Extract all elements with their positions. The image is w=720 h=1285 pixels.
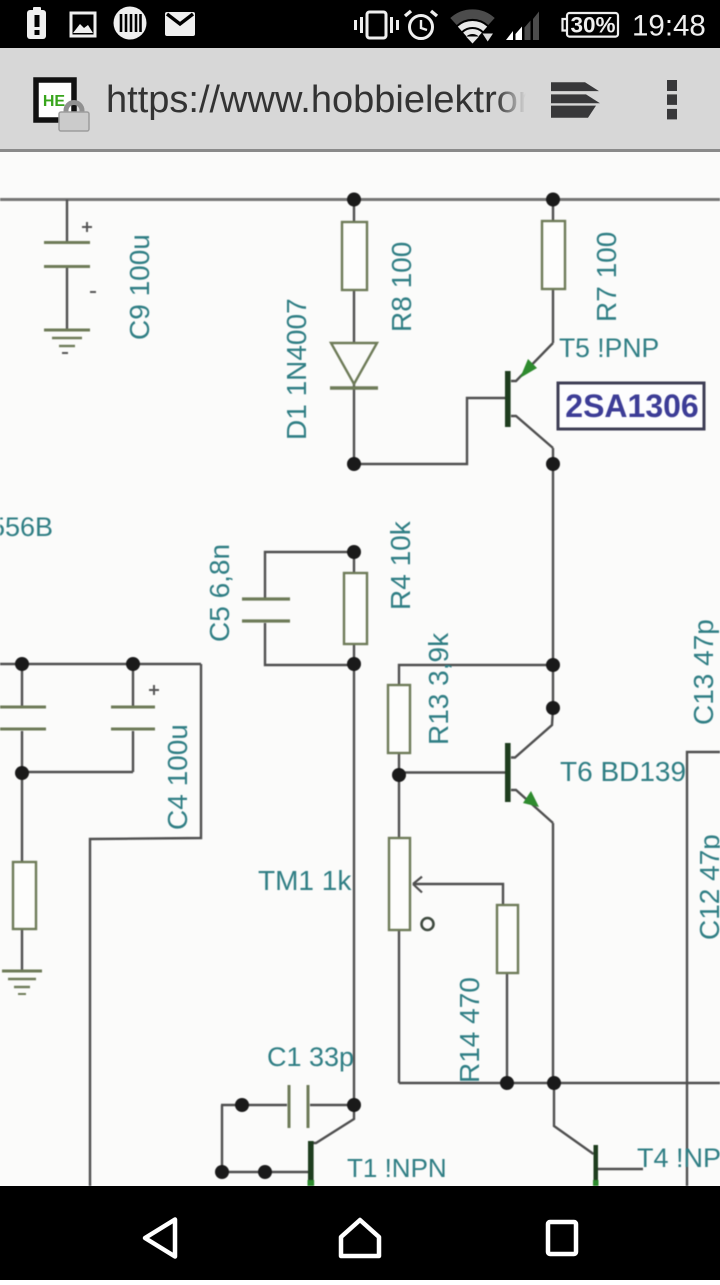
- svg-text:R7 100: R7 100: [591, 232, 622, 322]
- svg-text:R14 470: R14 470: [454, 977, 485, 1083]
- svg-text:C5 6,8n: C5 6,8n: [204, 544, 235, 642]
- svg-text:30%: 30%: [570, 13, 615, 38]
- svg-text:T4 !NP: T4 !NP: [637, 1143, 720, 1173]
- svg-text:2SA1306: 2SA1306: [565, 388, 698, 424]
- svg-text:https://www.hobbielektron: https://www.hobbielektron: [106, 79, 539, 121]
- svg-text:C13 47p: C13 47p: [688, 619, 719, 725]
- svg-text:C1 33p: C1 33p: [267, 1042, 354, 1072]
- svg-text:R4 10k: R4 10k: [385, 520, 416, 610]
- svg-text:C4 100u: C4 100u: [162, 724, 193, 830]
- svg-text:D1 1N4007: D1 1N4007: [281, 298, 312, 440]
- svg-text:R13 3,9k: R13 3,9k: [423, 632, 454, 745]
- svg-text:TM1 1k: TM1 1k: [258, 865, 352, 896]
- svg-text:556B: 556B: [0, 512, 53, 542]
- svg-text:C9 100u: C9 100u: [124, 234, 155, 340]
- svg-text:HE: HE: [43, 93, 66, 110]
- svg-text:T5 !PNP: T5 !PNP: [559, 333, 659, 363]
- svg-text:R8 100: R8 100: [386, 242, 417, 332]
- svg-text:T6 BD139: T6 BD139: [560, 756, 686, 787]
- svg-text:T1 !NPN: T1 !NPN: [347, 1153, 447, 1183]
- svg-text:19:48: 19:48: [632, 10, 706, 43]
- svg-text:C12 47p: C12 47p: [694, 834, 720, 940]
